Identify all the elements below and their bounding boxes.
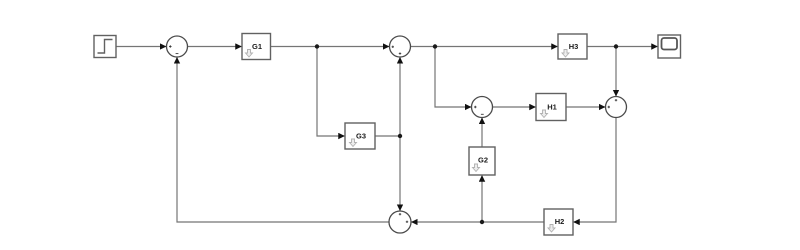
- step source block: [94, 36, 116, 58]
- wire sum3 to H1: [493, 106, 536, 108]
- wire G3 to node D: [375, 135, 400, 137]
- block G1: [242, 34, 271, 60]
- sum junction S4: [606, 97, 627, 118]
- wire G1 to sum2: [271, 46, 390, 48]
- sum junction S5: [389, 211, 411, 233]
- block H2: [544, 209, 573, 235]
- block H3: [558, 34, 587, 59]
- svg-text:H3: H3: [569, 42, 579, 51]
- svg-text:H1: H1: [547, 103, 557, 112]
- node C: [614, 44, 618, 48]
- wire step to sum1: [116, 46, 166, 48]
- wire H3 to scope: [587, 46, 658, 48]
- svg-text:H2: H2: [555, 217, 565, 226]
- wire sum2 to H3: [411, 46, 558, 48]
- wire branch to G3: [317, 47, 345, 137]
- wire H1 to sum4: [566, 106, 605, 108]
- node E: [480, 220, 484, 224]
- svg-text:G1: G1: [252, 42, 262, 51]
- sum junction S2: [390, 36, 411, 57]
- svg-text:G3: G3: [356, 132, 366, 141]
- wire node D down to sum5: [399, 136, 401, 211]
- sum junction S1: [167, 36, 188, 57]
- wire node E up to G2: [481, 175, 483, 222]
- block G3: [345, 123, 375, 149]
- wire sum1 to G1: [188, 46, 242, 48]
- scope sink block: [658, 35, 681, 58]
- block H1: [536, 94, 566, 121]
- svg-text:G2: G2: [478, 156, 488, 165]
- sum junction S3: [472, 97, 493, 118]
- wire H2 to sum5: [411, 221, 544, 223]
- wire sum4 down to H2: [573, 118, 616, 223]
- wire G2 to sum3: [481, 118, 483, 147]
- node A: [315, 44, 319, 48]
- wire node D up to sum2: [399, 57, 401, 136]
- wire branch to sum4 top: [615, 47, 617, 97]
- wire branch to sum3: [435, 47, 471, 108]
- wire sum5 feedback to sum1: [177, 57, 389, 222]
- node B: [433, 44, 437, 48]
- block G2: [469, 147, 495, 175]
- node D: [398, 134, 402, 138]
